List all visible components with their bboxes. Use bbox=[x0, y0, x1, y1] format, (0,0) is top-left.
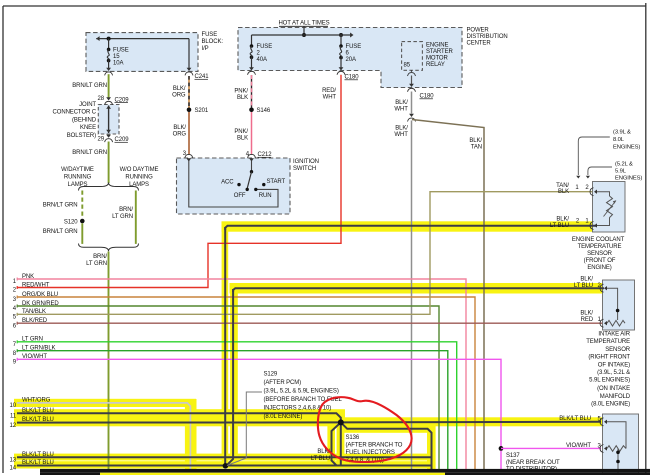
node S146 bbox=[249, 108, 271, 115]
svg-text:(AFTER BRANCH TO: (AFTER BRANCH TO bbox=[346, 442, 403, 448]
svg-text:KNEE: KNEE bbox=[80, 125, 96, 131]
svg-text:2: 2 bbox=[13, 288, 17, 294]
pin 4 label bbox=[13, 301, 60, 312]
label BLK/ RED bbox=[580, 310, 593, 323]
wire BLK/LT BLU core V2 bbox=[227, 289, 234, 466]
ignition contact ACC bbox=[221, 180, 241, 187]
svg-text:BLK/: BLK/ bbox=[469, 138, 482, 144]
ignition lever bbox=[247, 161, 253, 189]
svg-text:15: 15 bbox=[113, 54, 120, 60]
svg-text:11: 11 bbox=[10, 414, 17, 420]
svg-text:W/DAYTIME: W/DAYTIME bbox=[61, 167, 94, 173]
brace join bottom bbox=[79, 244, 139, 252]
engine coolant temperature sensor box bbox=[593, 182, 626, 233]
wire fuse2 to C180 exit bbox=[248, 57, 256, 75]
svg-text:8.0L: 8.0L bbox=[613, 137, 625, 143]
label BLK/ WHT (lower) bbox=[394, 125, 408, 138]
label BRN/ LT GRN (right branch) bbox=[112, 207, 133, 220]
svg-text:S137: S137 bbox=[506, 453, 520, 459]
fuse F6 20A bbox=[339, 44, 343, 59]
svg-text:START: START bbox=[267, 179, 286, 185]
ignition switch box bbox=[177, 158, 291, 214]
label BRN/LT GRN (below S120) bbox=[43, 229, 78, 235]
svg-text:LT GRN: LT GRN bbox=[86, 261, 107, 267]
pin 4 C212 bbox=[246, 151, 256, 161]
svg-text:(BEHIND: (BEHIND bbox=[72, 117, 97, 123]
svg-text:3: 3 bbox=[183, 151, 187, 157]
svg-text:FUSE: FUSE bbox=[202, 32, 218, 38]
intake air temperature sensor label bbox=[586, 332, 631, 408]
label w/daytime running lamps bbox=[61, 167, 94, 188]
connector C209 top bbox=[105, 97, 130, 105]
svg-text:INTAKE AIR: INTAKE AIR bbox=[598, 332, 630, 338]
wire DK GRN/RED bbox=[17, 306, 439, 470]
svg-text:BLK/LT BLU: BLK/LT BLU bbox=[22, 452, 54, 458]
svg-text:POWER: POWER bbox=[467, 28, 490, 34]
engine starter motor relay label bbox=[426, 43, 454, 69]
label BLK/ LT BLU (intake) bbox=[574, 277, 594, 290]
svg-text:BLK/LT BLU: BLK/LT BLU bbox=[22, 417, 54, 423]
svg-text:FUSE: FUSE bbox=[257, 44, 273, 50]
wire hot-feed tick bbox=[303, 26, 305, 35]
pin 9 label bbox=[13, 354, 48, 365]
splice S136 label bbox=[346, 435, 403, 464]
pin 13 label bbox=[10, 452, 54, 464]
label RED/ WHT bbox=[322, 88, 336, 101]
svg-text:(8.0L ENGINE): (8.0L ENGINE) bbox=[591, 402, 630, 408]
wire fuse6 to C180 exit bbox=[337, 58, 345, 75]
svg-text:LT GRN: LT GRN bbox=[112, 214, 133, 220]
svg-text:ORG: ORG bbox=[173, 131, 187, 137]
wire LT GRN/BLK bbox=[17, 351, 448, 470]
svg-text:(AFTER PCM): (AFTER PCM) bbox=[264, 380, 302, 386]
wire BLK/TAN branch bbox=[412, 120, 484, 470]
svg-text:ENGINES): ENGINES) bbox=[613, 145, 640, 151]
power distribution center label bbox=[467, 28, 508, 47]
svg-text:BRN/LT GRN: BRN/LT GRN bbox=[72, 83, 107, 89]
svg-text:WHT: WHT bbox=[394, 132, 408, 138]
svg-text:3: 3 bbox=[13, 297, 17, 303]
relay pin 85 label bbox=[404, 63, 411, 69]
svg-text:28: 28 bbox=[98, 96, 105, 102]
pin 28 bbox=[98, 96, 105, 102]
svg-text:OFF: OFF bbox=[234, 193, 246, 199]
svg-text:14: 14 bbox=[10, 466, 17, 472]
node S129 splice bbox=[223, 463, 229, 469]
intake pin2 entry bbox=[600, 284, 619, 320]
svg-text:S120: S120 bbox=[64, 219, 78, 225]
wire BRN/LT GRN main vertical bbox=[108, 252, 110, 470]
coolant sensor pin2 entry bbox=[590, 218, 609, 230]
svg-text:PNK/: PNK/ bbox=[234, 129, 248, 135]
node S201 bbox=[187, 108, 209, 115]
wire BLK/WHT upper bbox=[411, 92, 413, 110]
wire WHT/ORG core (pin 10) bbox=[17, 403, 190, 469]
svg-text:BLK/LT BLU: BLK/LT BLU bbox=[559, 416, 591, 422]
fuse block I/P label bbox=[202, 32, 224, 52]
label w/o daytime running lamps bbox=[120, 167, 159, 188]
svg-text:ACC: ACC bbox=[221, 180, 234, 186]
svg-text:5.9L: 5.9L bbox=[615, 169, 627, 175]
svg-text:2: 2 bbox=[585, 185, 589, 191]
inline connector bbox=[408, 109, 416, 122]
svg-text:BLK: BLK bbox=[558, 189, 569, 195]
svg-text:(FRONT OF: (FRONT OF bbox=[584, 258, 616, 264]
svg-text:MANIFOLD: MANIFOLD bbox=[600, 394, 631, 400]
svg-text:TEMPERATURE: TEMPERATURE bbox=[578, 244, 622, 250]
svg-text:STARTER: STARTER bbox=[426, 49, 454, 55]
svg-text:BLK/: BLK/ bbox=[173, 86, 186, 92]
svg-text:BLK/LT BLU: BLK/LT BLU bbox=[22, 408, 54, 414]
wire BLK/LT BLU drop left bbox=[332, 422, 341, 465]
wire BLK/ORG solid bbox=[188, 112, 190, 155]
svg-text:5.9L ENGINES): 5.9L ENGINES) bbox=[589, 378, 630, 384]
svg-text:WHT/ORG: WHT/ORG bbox=[22, 398, 51, 404]
pin 3 label bbox=[13, 292, 58, 303]
ignition contact RUN bbox=[254, 188, 271, 199]
coolant sensor thermistor bbox=[604, 196, 617, 218]
label BLK/LT BLU 5 bbox=[559, 416, 601, 423]
wire TAN/BLK bbox=[17, 192, 592, 315]
intake pin1 entry bbox=[600, 319, 625, 327]
distributor pin3 entry bbox=[600, 445, 626, 453]
connector C212 bbox=[258, 152, 273, 158]
svg-text:LT BLU: LT BLU bbox=[574, 283, 593, 289]
svg-text:10: 10 bbox=[10, 403, 17, 409]
connector C209 bottom bbox=[105, 135, 130, 143]
svg-text:ENGINE): ENGINE) bbox=[587, 265, 611, 271]
ignition contact OFF bbox=[234, 188, 249, 199]
label (5.2L & 5.9L ENGINES) bbox=[615, 162, 642, 182]
node fuse15 tap bbox=[107, 37, 111, 41]
brace split top bbox=[79, 183, 139, 191]
distributor pin5 entry bbox=[600, 418, 626, 449]
label BLK/ ORG (lower) bbox=[173, 125, 187, 138]
pin 14 label bbox=[10, 460, 54, 472]
label BRN/ LT GRN (main) bbox=[86, 254, 107, 267]
joint connector C bus bbox=[106, 106, 111, 134]
wire BLK/LT BLU branch to injectors bbox=[341, 422, 432, 470]
wire VIO/WHT bbox=[17, 359, 501, 469]
HOT AT ALL TIMES label bbox=[278, 21, 329, 27]
fuse F15 label bbox=[113, 48, 129, 67]
svg-text:8: 8 bbox=[13, 351, 17, 357]
pin 11 label bbox=[10, 408, 54, 420]
fuse F2 label bbox=[257, 44, 273, 63]
svg-text:PNK/: PNK/ bbox=[234, 88, 248, 94]
wire RED/WHT bbox=[17, 75, 341, 288]
wire BLK/WHT vertical bbox=[411, 121, 413, 470]
svg-text:10A: 10A bbox=[113, 61, 123, 67]
coolant sensor pins top bbox=[575, 185, 589, 191]
svg-text:S129: S129 bbox=[264, 372, 278, 378]
wire relay pin85 to C180 bbox=[408, 70, 416, 92]
label BRN/LT GRN (top) bbox=[72, 83, 107, 89]
label PNK/ BLK (upper) bbox=[234, 88, 248, 101]
svg-text:1: 1 bbox=[575, 185, 579, 191]
svg-text:(5.2L &: (5.2L & bbox=[615, 162, 633, 168]
wire ORG/DK BLU bbox=[17, 297, 475, 470]
wire fuse block right drop bbox=[185, 39, 193, 76]
wire PNK/BLK dashed bbox=[251, 75, 253, 108]
pin 3 C212 bbox=[183, 151, 193, 162]
wire LT GRN bbox=[17, 342, 457, 470]
wire BLK/LT BLU core (pin 14) bbox=[17, 465, 432, 467]
pin 7 label bbox=[13, 337, 43, 348]
svg-text:DISTRIBUTION: DISTRIBUTION bbox=[467, 34, 508, 40]
label BLK/ ORG (upper) bbox=[172, 86, 186, 99]
intake pin 2 bbox=[598, 283, 602, 289]
intake pin 1 bbox=[598, 317, 602, 323]
svg-text:ENGINE COOLANT: ENGINE COOLANT bbox=[572, 237, 625, 243]
svg-text:S146: S146 bbox=[257, 108, 271, 114]
svg-text:BRN/: BRN/ bbox=[93, 254, 107, 260]
svg-text:4: 4 bbox=[13, 306, 17, 312]
svg-text:LT BLU: LT BLU bbox=[550, 223, 569, 229]
svg-text:WHT: WHT bbox=[323, 94, 337, 100]
pin 5 label bbox=[13, 309, 46, 320]
svg-text:HOT AT ALL TIMES: HOT AT ALL TIMES bbox=[278, 21, 329, 27]
svg-text:12: 12 bbox=[10, 423, 17, 429]
label (3.9L & 8.0L ENGINES) bbox=[613, 130, 640, 151]
svg-text:20A: 20A bbox=[346, 57, 356, 63]
svg-text:BLK/: BLK/ bbox=[395, 100, 408, 106]
svg-text:BLK: BLK bbox=[237, 136, 248, 142]
connector C180 (fuse 6) bbox=[345, 75, 360, 81]
label BRN/LT GRN (left branch) bbox=[43, 203, 78, 209]
svg-text:BLK/: BLK/ bbox=[173, 125, 186, 131]
fuse F15 10A bbox=[107, 48, 111, 63]
leader 3.9L arrow bbox=[576, 137, 610, 179]
svg-text:SWITCH: SWITCH bbox=[293, 166, 316, 172]
svg-text:FUSE: FUSE bbox=[346, 44, 362, 50]
svg-text:BOLSTER): BOLSTER) bbox=[67, 133, 96, 139]
svg-text:TAN: TAN bbox=[471, 144, 482, 150]
wire BRN/LT GRN below C209 bbox=[108, 142, 110, 184]
svg-text:RUN: RUN bbox=[259, 193, 272, 199]
wire BRN/LT GRN right branch bbox=[135, 191, 137, 244]
wire BLK/ORG dashed bbox=[188, 76, 190, 108]
svg-text:85: 85 bbox=[404, 63, 411, 69]
pin 10 label bbox=[10, 398, 51, 410]
svg-text:BLK/: BLK/ bbox=[556, 216, 569, 222]
svg-text:13: 13 bbox=[10, 458, 17, 464]
engine starter motor relay box bbox=[402, 42, 423, 71]
label BLK/ WHT (upper) bbox=[394, 100, 408, 113]
svg-text:RED/: RED/ bbox=[322, 88, 336, 94]
intake air temperature sensor box bbox=[603, 280, 635, 330]
pin 29 bbox=[98, 136, 105, 142]
bottom scan bar bbox=[40, 469, 650, 475]
wire BRN/LT GRN from fuse15 bbox=[108, 74, 110, 97]
svg-text:RED/WHT: RED/WHT bbox=[22, 282, 50, 288]
wire VIO/WHT to distributor bbox=[501, 447, 601, 449]
wire fuse block bus bbox=[96, 36, 189, 41]
wire BLK/LT BLU core (pin 12) to distributor bbox=[17, 421, 601, 424]
wire PDC internal bus bbox=[252, 33, 354, 38]
wire ignition pin3 to RUN bbox=[189, 161, 278, 208]
svg-text:BLOCK:: BLOCK: bbox=[202, 39, 224, 45]
wire BLK/LT BLU core (pin 13) bbox=[17, 456, 432, 458]
distributor internal tap bbox=[616, 449, 620, 475]
svg-text:VIO/WHT: VIO/WHT bbox=[566, 443, 591, 449]
svg-text:TEMPERATURE: TEMPERATURE bbox=[586, 339, 630, 345]
svg-text:(3.9L, 5.2L & 5.9L ENGINES): (3.9L, 5.2L & 5.9L ENGINES) bbox=[264, 389, 339, 395]
svg-text:(RIGHT FRONT: (RIGHT FRONT bbox=[588, 355, 630, 361]
svg-text:CENTER: CENTER bbox=[467, 41, 492, 47]
wire BRN/LT GRN below S120 bbox=[81, 223, 83, 244]
svg-text:FUSE: FUSE bbox=[113, 48, 129, 54]
joint connector C box bbox=[98, 105, 119, 135]
ignition contact START bbox=[262, 179, 285, 186]
pin 12 label bbox=[10, 417, 54, 429]
label PNK/ BLK (lower) bbox=[234, 129, 248, 142]
fuse F6 label bbox=[346, 44, 362, 63]
svg-text:RELAY: RELAY bbox=[426, 62, 445, 68]
svg-text:ORG: ORG bbox=[172, 93, 186, 99]
svg-text:BRN/LT GRN: BRN/LT GRN bbox=[72, 150, 107, 156]
svg-text:BLK: BLK bbox=[237, 95, 248, 101]
wire BLK/LT BLU drop right bbox=[340, 422, 342, 466]
label BRN/LT GRN (mid) bbox=[72, 150, 107, 156]
svg-text:IGNITION: IGNITION bbox=[293, 159, 319, 165]
svg-text:JOINT: JOINT bbox=[79, 102, 96, 108]
joint connector C label bbox=[53, 102, 97, 139]
wire BLK/LT BLU core H2 to intake sensor bbox=[233, 288, 604, 292]
svg-text:FUEL INJECTORS: FUEL INJECTORS bbox=[346, 450, 395, 456]
fuse F2 40A bbox=[250, 44, 254, 59]
svg-text:BLK/: BLK/ bbox=[580, 310, 593, 316]
svg-text:ENGINE: ENGINE bbox=[426, 43, 449, 49]
fuse block I/P box bbox=[86, 33, 198, 72]
wire fuse6 top drop bbox=[340, 35, 342, 46]
S129 leader bbox=[227, 392, 262, 466]
label BLK/ TAN bbox=[469, 138, 482, 151]
svg-text:29: 29 bbox=[98, 136, 105, 142]
wire BLK/LT BLU core (pin 11) bbox=[17, 413, 341, 422]
splice S129 label bbox=[264, 372, 343, 421]
engine coolant temperature sensor label bbox=[572, 237, 625, 271]
svg-text:RUNNING: RUNNING bbox=[125, 174, 153, 180]
svg-text:S136: S136 bbox=[346, 435, 360, 441]
svg-text:CONNECTOR C: CONNECTOR C bbox=[53, 110, 97, 116]
svg-text:RUNNING: RUNNING bbox=[64, 174, 92, 180]
svg-text:S201: S201 bbox=[195, 108, 209, 114]
node S137 bbox=[499, 446, 560, 473]
ignition switch label bbox=[293, 159, 319, 172]
svg-text:9: 9 bbox=[13, 360, 17, 366]
red pen circle around S136 bbox=[318, 397, 412, 462]
leader 5.2L arrow bbox=[586, 167, 612, 179]
svg-text:LT BLU: LT BLU bbox=[311, 456, 330, 462]
svg-text:(3.9L &: (3.9L & bbox=[613, 130, 631, 136]
svg-text:WHT: WHT bbox=[394, 107, 408, 113]
pin 8 label bbox=[13, 346, 56, 357]
wire PNK bbox=[17, 279, 466, 470]
svg-text:(8.0L ENGINE): (8.0L ENGINE) bbox=[264, 414, 303, 420]
label VIO/WHT 3 bbox=[566, 443, 601, 450]
svg-text:5: 5 bbox=[13, 315, 17, 321]
wire BLK/RED bbox=[17, 322, 602, 324]
coolant sensor pin1 entry bbox=[590, 188, 609, 196]
svg-text:MOTOR: MOTOR bbox=[426, 56, 448, 62]
connector C241 bbox=[195, 74, 210, 80]
distributor box bbox=[603, 414, 639, 475]
highlighter yellow bands over BLK/LT BLU wire network bbox=[14, 221, 604, 472]
wire PNK/BLK solid bbox=[251, 112, 253, 155]
svg-text:BLK/LT BLU: BLK/LT BLU bbox=[22, 460, 54, 466]
svg-text:BRN/: BRN/ bbox=[119, 207, 133, 213]
label TAN/ BLK (sensor) bbox=[556, 183, 569, 195]
svg-text:ENGINES): ENGINES) bbox=[615, 176, 642, 182]
svg-text:(ON INTAKE: (ON INTAKE bbox=[597, 386, 630, 392]
svg-text:BLK/: BLK/ bbox=[580, 277, 593, 283]
svg-text:(3.9L, 5.2L &: (3.9L, 5.2L & bbox=[597, 370, 630, 376]
wire fuse2 top drop bbox=[251, 35, 253, 46]
power distribution center box bbox=[238, 28, 462, 88]
svg-text:SENSOR: SENSOR bbox=[605, 347, 631, 353]
wire BLK/LT BLU core V1 bbox=[224, 227, 226, 464]
svg-text:6: 6 bbox=[13, 323, 17, 329]
svg-text:OF INTAKE): OF INTAKE) bbox=[598, 362, 630, 368]
wire BRN/LT GRN dashed branch bbox=[81, 191, 83, 219]
svg-text:BRN/LT GRN: BRN/LT GRN bbox=[43, 229, 78, 235]
label BLK/ LT BLU (S136 drop) bbox=[311, 449, 331, 462]
pin 6 label bbox=[13, 318, 48, 329]
pin 1 label bbox=[13, 274, 34, 285]
svg-text:(NEAR BREAK OUT: (NEAR BREAK OUT bbox=[506, 460, 560, 466]
wire fuse15 drop bbox=[108, 39, 110, 50]
svg-text:SENSOR: SENSOR bbox=[587, 251, 613, 257]
node hot bus junction bbox=[302, 33, 343, 37]
svg-text:BLK/: BLK/ bbox=[395, 125, 408, 131]
coolant sensor pins bottom bbox=[576, 218, 590, 224]
pin 2 label bbox=[13, 282, 50, 293]
wire BLK/LT BLU core H1 to coolant sensor bbox=[225, 226, 596, 230]
svg-text:BRN/LT GRN: BRN/LT GRN bbox=[43, 203, 78, 209]
connector C180 (relay) bbox=[420, 94, 435, 100]
wire fuse15 exit bbox=[105, 61, 113, 76]
svg-text:W/O DAYTIME: W/O DAYTIME bbox=[120, 167, 159, 173]
svg-text:1: 1 bbox=[13, 279, 17, 285]
svg-text:7: 7 bbox=[13, 342, 17, 348]
svg-text:40A: 40A bbox=[257, 57, 267, 63]
node S136 bbox=[338, 419, 344, 425]
node S120 bbox=[64, 219, 85, 226]
svg-text:I/P: I/P bbox=[202, 46, 209, 52]
label BLK/ LT BLU (coolant) bbox=[550, 216, 570, 229]
svg-text:RED: RED bbox=[581, 317, 594, 323]
